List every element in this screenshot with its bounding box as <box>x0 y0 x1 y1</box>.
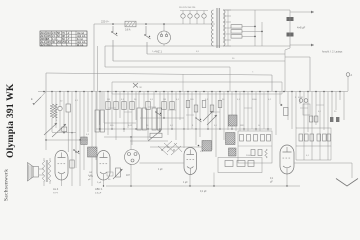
socket plug <box>125 140 140 177</box>
IF transformer core 2 <box>226 133 236 145</box>
svg-text:1W: 1W <box>89 172 92 174</box>
svg-text:300: 300 <box>47 43 52 47</box>
capacitor trim star <box>280 103 288 116</box>
svg-text:Sachsenwerk: Sachsenwerk <box>4 169 10 201</box>
tube AK2 <box>280 145 294 174</box>
capacitor C var2 <box>52 124 67 137</box>
svg-text:-: - <box>52 44 53 47</box>
transformer taps <box>223 10 231 46</box>
IF transformer core 1 <box>198 141 212 152</box>
svg-text:Anschl. f. 2. Lautspr.: Anschl. f. 2. Lautspr. <box>322 51 343 54</box>
svg-text:Ug1 mA: Ug1 mA <box>77 41 86 44</box>
wires IF drops <box>184 92 236 158</box>
switch S3 <box>195 117 201 122</box>
svg-text:0,5M: 0,5M <box>298 97 303 99</box>
tube ABC1 <box>97 151 110 181</box>
wires right drops <box>276 92 340 161</box>
label anschluss <box>322 51 343 54</box>
capacitor block pair <box>310 116 318 122</box>
labels frame top <box>152 51 235 60</box>
wire conn y147 <box>150 146 203 148</box>
svg-text:220 V~: 220 V~ <box>101 20 110 24</box>
svg-text:AZ 1: AZ 1 <box>156 50 162 54</box>
IF can bottom <box>229 148 237 156</box>
wire plug to tube <box>140 162 185 164</box>
coil former pair 1 <box>95 92 104 133</box>
node column x255 <box>254 10 256 46</box>
title Sachsenwerk (vertical) <box>4 169 10 201</box>
switch S1a <box>111 23 117 61</box>
wire y137 <box>104 136 150 137</box>
title Olympia 391 WK (vertical) <box>5 83 16 158</box>
wave switch strokes <box>158 141 182 155</box>
wire HT rail right <box>285 10 290 91</box>
wire plug stem <box>130 137 132 140</box>
svg-text:0,1 µF: 0,1 µF <box>200 191 207 193</box>
transformer Tr1 secondary <box>223 10 225 46</box>
right component box <box>296 128 331 146</box>
wire top rail <box>223 9 290 11</box>
wire frame inner box <box>112 82 282 94</box>
wire bottom bus <box>103 165 300 187</box>
mech box <box>218 158 262 173</box>
switch S1b <box>144 23 150 54</box>
label AZ1 <box>156 50 162 54</box>
wire v1 stem <box>61 180 63 186</box>
label 220V <box>101 20 110 24</box>
tube AF3 <box>184 148 197 175</box>
wire x105 drop <box>104 46 106 67</box>
wire v2 stem <box>103 180 105 186</box>
svg-text:2M: 2M <box>107 99 110 101</box>
wire mains line <box>94 23 215 25</box>
output transformer <box>42 158 51 186</box>
svg-text:AL 4: AL 4 <box>53 187 59 191</box>
output arrow top <box>290 11 314 14</box>
labels cluster v2 <box>89 172 113 184</box>
label AF3 <box>183 182 207 193</box>
wire frame H2 <box>113 60 285 62</box>
wire conn y123 <box>104 92 136 124</box>
switch marker <box>133 83 143 89</box>
wire HT bottom rail <box>105 45 290 47</box>
coil former 3 <box>152 92 156 131</box>
voltage selector plugs <box>179 7 208 24</box>
wire spk conn <box>39 169 44 175</box>
svg-text:AZ1: AZ1 <box>41 43 46 47</box>
bandfilter box <box>238 131 272 163</box>
coil L2 <box>81 137 87 145</box>
capacitor C var1 <box>44 118 57 135</box>
resistors band C <box>186 101 222 113</box>
resistor R bank <box>231 25 262 38</box>
svg-text:1 µF: 1 µF <box>183 182 188 184</box>
antenna A <box>346 73 352 91</box>
wire conn y118 <box>140 117 184 118</box>
tube voltage table <box>40 31 87 47</box>
potentiometer P1 <box>148 131 162 142</box>
bandfilter core 1 <box>88 147 98 186</box>
tube AL4 <box>55 151 68 181</box>
wire mid bus <box>96 128 272 129</box>
svg-text:-: - <box>62 44 63 47</box>
label ABC1 <box>95 187 103 195</box>
wire frame H3 <box>105 67 230 91</box>
svg-text:0,8 A: 0,8 A <box>125 29 131 32</box>
svg-text:Ua mA: Ua mA <box>77 32 84 35</box>
node column x262 <box>261 22 263 46</box>
label AK2 <box>270 178 274 184</box>
wires mid drops with resistors <box>106 92 180 146</box>
svg-text:-: - <box>67 44 68 47</box>
capacitor C el1 <box>287 17 294 21</box>
terminal E <box>31 92 46 106</box>
wires bandfilter drops <box>240 92 268 132</box>
svg-text:Ri mA: Ri mA <box>77 44 84 47</box>
wire stubs texture <box>108 105 324 115</box>
wire frame H4 <box>46 71 272 92</box>
chassis chevron <box>336 179 358 187</box>
svg-text:110 125 150 220: 110 125 150 220 <box>179 7 196 9</box>
trimmer C t1 <box>58 106 62 132</box>
label bottom <box>158 169 163 171</box>
capacitor block pair 2 <box>330 117 339 122</box>
transformer Tr1 primary <box>212 10 214 46</box>
switch S2 <box>155 111 161 116</box>
loudspeaker <box>28 163 39 182</box>
svg-text:0,3 µF: 0,3 µF <box>95 193 102 195</box>
wire v4 stem <box>286 174 288 186</box>
svg-text:2 µF: 2 µF <box>97 182 102 184</box>
svg-text:1M: 1M <box>163 99 166 101</box>
svg-text:1 µF: 1 µF <box>152 51 157 53</box>
coil former pair 2 <box>137 92 146 131</box>
label caps <box>297 26 306 30</box>
switch arrows IF <box>203 111 217 125</box>
trimmer pair <box>295 97 308 102</box>
wire mains drop <box>94 24 98 91</box>
coil former 4 <box>157 108 161 130</box>
resistor R1 <box>66 104 70 152</box>
capacitor C el2 <box>287 33 294 37</box>
svg-text:-: - <box>57 44 58 47</box>
wire conn y133 <box>52 132 76 133</box>
svg-text:Ik mA: Ik mA <box>77 38 83 41</box>
wire right bus y160 <box>296 146 331 160</box>
wire main bus <box>38 91 348 93</box>
output arrow bottom <box>290 44 314 47</box>
label fuse <box>125 29 131 32</box>
svg-text:Ug2 mA: Ug2 mA <box>77 35 86 38</box>
wire v4 to chevron <box>294 163 352 178</box>
rectifier AZ1 <box>158 23 171 46</box>
wire right col x344 <box>343 92 345 121</box>
wire l brace <box>45 139 88 160</box>
potentiometer P2 <box>113 168 123 179</box>
components between v1 v2 <box>70 126 93 186</box>
fuse Si1 <box>125 21 136 27</box>
wires tuning drops <box>46 92 100 161</box>
svg-text:1 µF: 1 µF <box>158 169 163 171</box>
transformer Tr1 core <box>217 8 219 48</box>
svg-text:4×8 µF: 4×8 µF <box>297 26 306 30</box>
value labels <box>56 97 337 157</box>
wire frame H1 <box>147 54 310 91</box>
svg-text:Olympia 391 WK: Olympia 391 WK <box>5 83 16 158</box>
svg-text:ABC 1: ABC 1 <box>95 187 103 191</box>
small box right <box>303 104 310 115</box>
label AL4 <box>53 187 59 195</box>
wire v3 stem <box>189 175 191 187</box>
IF can top <box>229 115 238 126</box>
coil L1 <box>50 104 57 118</box>
wire conn y141 <box>130 140 168 142</box>
svg-text:7777: 7777 <box>53 193 59 195</box>
